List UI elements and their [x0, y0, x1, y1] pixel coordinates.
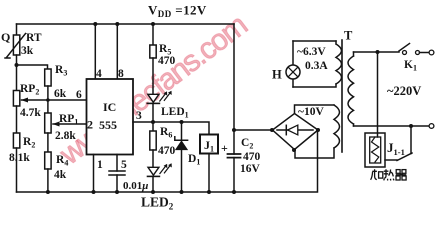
svg-text:C2: C2	[241, 137, 253, 151]
svg-text:Q: Q	[1, 30, 10, 44]
IC U1 555 timer box	[87, 79, 134, 155]
wire R3 to RP1	[47, 86, 49, 113]
wire R4 to bottom rail	[47, 169, 49, 192]
wire bottom ground rail	[17, 130, 318, 192]
wire pin4	[94, 24, 96, 79]
resistor R5	[151, 22, 155, 26]
LED2	[148, 167, 159, 175]
svg-text:6k: 6k	[54, 88, 67, 100]
wire heater drop	[377, 52, 379, 137]
svg-text:6: 6	[76, 89, 82, 101]
wire node A to R3	[17, 65, 48, 69]
LED1	[148, 94, 159, 102]
node R3-pin6 junction	[46, 98, 50, 102]
svg-text:R6: R6	[160, 126, 172, 140]
svg-text:RP1: RP1	[59, 113, 78, 127]
svg-text:+: +	[221, 141, 228, 155]
bridge diode	[277, 129, 313, 131]
wire top VDD rail	[17, 23, 235, 25]
svg-text:2: 2	[87, 118, 93, 132]
svg-text:470: 470	[158, 55, 176, 67]
svg-text:~6.3V: ~6.3V	[297, 46, 326, 58]
svg-text:RT: RT	[26, 32, 42, 44]
svg-text:RP2: RP2	[20, 83, 39, 97]
svg-text:J1-1: J1-1	[387, 140, 405, 157]
wire R2 to bottom rail	[16, 148, 18, 192]
6.3V secondary loop	[293, 41, 336, 87]
svg-text:R3: R3	[55, 64, 67, 78]
svg-text:4: 4	[96, 68, 102, 80]
transformer primary winding 220V	[353, 52, 355, 56]
capacitor C1 0.01u	[109, 171, 125, 175]
wire RP2 wiper to pin6 (arrow)	[22, 99, 87, 101]
capacitor C2 column	[233, 24, 235, 154]
lamp H	[286, 65, 300, 79]
wire RP1 wiper to pin2 (arrow)	[53, 123, 87, 125]
transformer core	[341, 40, 343, 152]
resistor R6	[152, 122, 154, 131]
svg-text:8.1k: 8.1k	[9, 152, 30, 164]
wire RT to RP2	[16, 55, 18, 91]
svg-text:1: 1	[97, 159, 103, 171]
wire left column upper	[16, 24, 18, 35]
wire primary bottom to terminal	[354, 125, 429, 127]
relay coil J1	[200, 135, 218, 154]
svg-text:~220V: ~220V	[387, 84, 421, 98]
svg-text:VDD =12V: VDD =12V	[148, 3, 207, 20]
svg-text:IC: IC	[103, 100, 116, 114]
svg-text:H: H	[272, 68, 282, 82]
svg-text:~10V: ~10V	[298, 106, 324, 118]
wire pin8	[116, 24, 118, 79]
potentiometer RP2	[13, 91, 19, 107]
thermistor RT	[13, 35, 19, 55]
transformer winding (10V secondary)	[334, 105, 340, 148]
resistor R3	[45, 69, 51, 86]
wire C2 to bridge	[234, 129, 272, 131]
svg-text:470: 470	[243, 151, 261, 163]
wire RP2 to R2	[16, 106, 18, 133]
wire pin1 to ground rail	[93, 155, 95, 193]
watermark www.elecfans.com	[53, 9, 253, 172]
svg-text:4k: 4k	[54, 169, 67, 181]
potentiometer RP1	[45, 113, 51, 133]
svg-text:4.7k: 4.7k	[20, 107, 41, 119]
wire C1 to rail	[116, 175, 118, 192]
svg-text:2.8k: 2.8k	[55, 130, 76, 142]
svg-text:D1: D1	[188, 153, 200, 167]
node A (RT-R3 junction)	[15, 63, 19, 67]
svg-text:0.01μ: 0.01μ	[123, 180, 148, 192]
wire RP1 to R4	[47, 133, 49, 152]
switch K1	[399, 44, 410, 52]
wire pin3 output	[133, 122, 209, 135]
heating element	[370, 137, 381, 163]
heater box	[365, 133, 385, 167]
svg-text:8: 8	[118, 68, 124, 80]
resistor R2	[13, 133, 19, 148]
transformer winding (6.3V secondary)	[336, 41, 342, 84]
svg-text:R2: R2	[23, 136, 35, 150]
svg-text:470: 470	[158, 145, 176, 157]
svg-text:K1: K1	[404, 59, 417, 73]
svg-text:0.3A: 0.3A	[305, 60, 328, 72]
relay contact J1-1	[385, 159, 397, 161]
zener diode D1	[181, 122, 183, 140]
svg-text:555: 555	[99, 118, 117, 132]
svg-text:LED2: LED2	[141, 195, 174, 212]
wire pin5 upper	[116, 155, 118, 172]
bridge rectifier diamond	[273, 114, 319, 150]
label heater chinese 加热器 (drawn strokes)	[371, 169, 407, 180]
svg-text:5: 5	[121, 159, 127, 171]
svg-text:LED1: LED1	[161, 106, 189, 120]
resistor R4	[45, 152, 51, 169]
svg-text:16V: 16V	[240, 163, 261, 175]
svg-text:T: T	[344, 29, 353, 43]
svg-text:3k: 3k	[21, 45, 34, 57]
10V secondary loop	[295, 105, 335, 114]
svg-text:3: 3	[136, 110, 142, 122]
wire primary top to switch	[354, 51, 400, 53]
